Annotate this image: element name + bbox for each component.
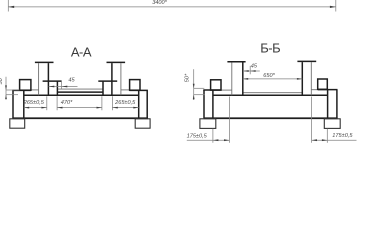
overall dimension arrow right	[330, 6, 336, 8]
B-B bottom left 175 arrow right	[224, 139, 229, 141]
B-B bottom right extension line from post	[311, 97, 313, 143]
A-A 45 dim extension line	[61, 82, 63, 89]
A-A 470 arrow left	[57, 107, 62, 109]
A-A 50* extension line lower	[6, 94, 18, 96]
B-B right post left edge	[301, 62, 303, 95]
svg-text:650*: 650*	[263, 73, 275, 79]
B-B 45 arrow at post	[243, 70, 248, 72]
A-A 50* vertical dimension line	[5, 77, 7, 97]
A-A left post left edge	[38, 63, 40, 95]
A-A 470 arrow right	[97, 107, 102, 109]
A-A dim row extension line at right collar	[101, 96, 103, 110]
A-A dim row extension line at left collar	[56, 96, 58, 110]
A-A 50* extension line upper	[6, 89, 20, 91]
B-B bottom right 175 arrow left	[312, 139, 317, 141]
B-B bottom left extension line from leg	[212, 129, 214, 143]
A-A tie bar top line	[57, 88, 103, 90]
B-B thin deck line left segment	[221, 89, 232, 91]
A-A left post top flange	[35, 61, 54, 63]
B-B 45 arrow at extension	[250, 70, 255, 72]
svg-text:45: 45	[251, 63, 258, 69]
A-A right post right edge	[120, 63, 122, 95]
A-A left foot	[10, 119, 25, 128]
overall dimension arrow left	[8, 6, 14, 8]
A-A left leg top edge	[12, 89, 31, 91]
B-B 650 arrow right	[297, 78, 302, 80]
B-B right leg left edge	[327, 90, 329, 119]
B-B beam top edge	[213, 94, 328, 96]
B-B bottom right 175 dimension line	[312, 139, 357, 141]
A-A beam bottom edge	[12, 117, 148, 119]
A-A 470 dimension line	[57, 107, 102, 109]
B-B right foot	[324, 119, 340, 129]
B-B left lug square	[211, 80, 221, 90]
A-A 45 dimension line	[49, 86, 78, 88]
A-A thin deck line left segment	[31, 89, 39, 91]
A-A thin deck line right segment	[121, 89, 130, 91]
B-B 50* arrow lower	[193, 95, 195, 100]
B-B 45 extension line	[249, 66, 251, 75]
A-A tie bar bottom line	[57, 91, 103, 93]
B-B left leg right edge	[212, 90, 214, 118]
A-A right collar inner edge	[102, 81, 104, 95]
B-B thin deck line right segment	[311, 89, 318, 91]
B-B left post top flange	[227, 61, 245, 63]
B-B left foot	[200, 119, 216, 129]
B-B right leg top edge	[318, 89, 338, 91]
A-A 45 arrow at post	[49, 86, 54, 88]
A-A right leg left edge	[138, 90, 140, 118]
B-B right lug square	[318, 79, 328, 89]
A-A left collar top edge	[43, 80, 62, 82]
svg-text:50*: 50*	[0, 75, 4, 84]
B-B 650 dimension line	[243, 78, 302, 80]
B-B left post left edge	[231, 62, 233, 95]
A-A 265 left arrow right	[41, 107, 46, 109]
B-B right leg right edge	[336, 90, 338, 119]
B-B left leg left edge	[203, 90, 205, 118]
svg-text:50*: 50*	[185, 73, 191, 82]
B-B bottom left 175 arrow left	[213, 139, 218, 141]
A-A right foot	[135, 119, 150, 128]
A-A beam top edge	[24, 94, 139, 96]
B-B 50* vertical dimension line	[193, 69, 195, 100]
svg-text:Б-Б: Б-Б	[260, 41, 280, 56]
A-A left leg right edge	[23, 90, 25, 118]
B-B left post right edge	[242, 62, 244, 95]
overall dimension 3400* extension line right	[335, 0, 337, 12]
A-A 265 left arrow left	[24, 107, 29, 109]
B-B middle thin line between posts	[243, 92, 302, 94]
A-A 265 right dimension line	[112, 107, 138, 109]
A-A right leg top edge	[130, 89, 148, 91]
A-A 265 left dimension line	[24, 107, 47, 109]
A-A 45 arrow at extension	[62, 86, 67, 88]
A-A 265 right arrow right	[133, 107, 138, 109]
A-A right lug square	[130, 80, 140, 91]
overall dimension 3400* dimension line	[8, 6, 336, 8]
B-B 45 dimension line	[243, 70, 260, 72]
A-A right collar top edge	[98, 80, 117, 82]
B-B right post top flange	[297, 60, 316, 62]
A-A 265 right arrow left	[112, 107, 117, 109]
svg-text:265±0,5: 265±0,5	[114, 100, 136, 106]
A-A dim row extension line at right post	[111, 96, 113, 110]
A-A 50* arrow upper	[5, 85, 7, 90]
B-B beam bottom edge	[204, 117, 338, 119]
overall dimension 3400* extension line left	[7, 0, 9, 12]
A-A right post left edge	[111, 63, 113, 95]
B-B 50* extension line upper	[194, 87, 205, 89]
svg-text:175±0,5: 175±0,5	[332, 133, 353, 139]
A-A left collar inner edge	[56, 81, 58, 95]
svg-text:470*: 470*	[61, 100, 73, 106]
B-B left leg top edge	[203, 89, 220, 91]
A-A left lug square	[20, 80, 31, 91]
B-B bottom right extension line from leg	[326, 129, 328, 143]
svg-text:А-А: А-А	[71, 45, 92, 60]
A-A left post right edge	[47, 63, 49, 95]
svg-text:265±0,5: 265±0,5	[23, 100, 45, 106]
B-B bottom left extension line from post	[228, 97, 230, 143]
B-B bottom left 175 dimension line	[187, 139, 230, 141]
A-A left leg left edge	[12, 90, 14, 118]
B-B 50* extension line lower	[194, 94, 205, 96]
A-A right leg right edge	[146, 90, 148, 118]
A-A 50* arrow lower	[5, 95, 7, 100]
B-B 650 arrow left	[243, 78, 248, 80]
svg-text:3400*: 3400*	[152, 0, 167, 6]
svg-text:175±0,5: 175±0,5	[187, 133, 208, 139]
A-A right post top flange	[107, 61, 126, 63]
A-A dim row extension line at left post	[46, 96, 48, 110]
B-B 50* arrow upper	[193, 84, 195, 89]
B-B bottom right 175 arrow right	[322, 139, 327, 141]
B-B right post right edge	[310, 62, 312, 95]
svg-text:45: 45	[68, 78, 75, 84]
